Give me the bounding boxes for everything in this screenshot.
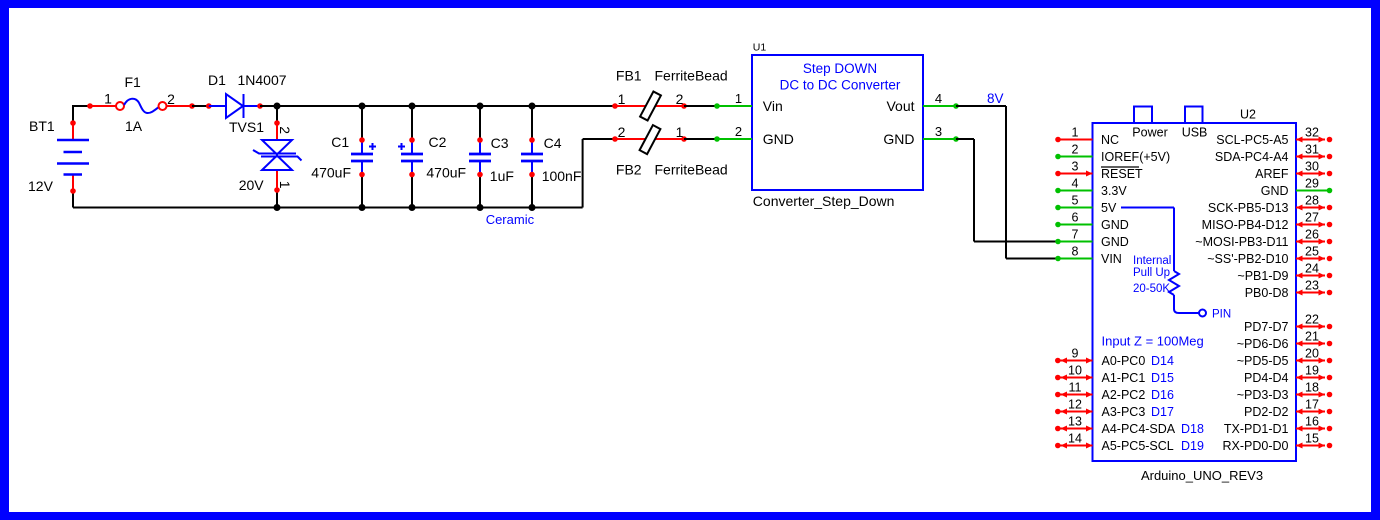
- U2 pin 4 3.3V: [1055, 177, 1127, 199]
- svg-text:D16: D16: [1151, 388, 1174, 402]
- node C2 bottom: [409, 204, 416, 211]
- U2 pin 32 SCL-PC5-A5: [1216, 126, 1332, 148]
- svg-text:8: 8: [1072, 245, 1079, 259]
- U2 pin 12 A3-PC3: [1055, 398, 1174, 420]
- svg-text:VIN: VIN: [1101, 252, 1122, 266]
- node battery top corner: [72, 105, 74, 107]
- svg-text:24: 24: [1305, 262, 1319, 276]
- svg-text:20: 20: [1305, 347, 1319, 361]
- U2 pin 27 MISO-PB4-D12: [1202, 211, 1333, 233]
- svg-text:1: 1: [104, 91, 112, 107]
- svg-text:U1: U1: [753, 42, 767, 54]
- diode D1 1N4007: [206, 72, 287, 118]
- svg-text:IOREF(+5V): IOREF(+5V): [1101, 150, 1170, 164]
- U1 pin 4 Vout: [923, 105, 956, 107]
- svg-text:FB2: FB2: [616, 161, 642, 177]
- svg-text:TX-PD1-D1: TX-PD1-D1: [1224, 422, 1289, 436]
- svg-text:PIN: PIN: [1212, 309, 1231, 321]
- U1 pin 2 GND: [717, 138, 752, 140]
- wire top rail C4 to FB1: [532, 105, 615, 107]
- svg-text:DC to DC Converter: DC to DC Converter: [780, 78, 901, 93]
- node C1 bottom: [359, 204, 366, 211]
- svg-text:1: 1: [277, 181, 293, 189]
- svg-text:16: 16: [1305, 415, 1319, 429]
- U2 pin 18 ~PD3-D3: [1237, 381, 1333, 403]
- capacitor C2 470uF: [398, 106, 423, 208]
- svg-text:BT1: BT1: [29, 118, 55, 134]
- U2 pin 22 PD7-D7: [1244, 313, 1332, 335]
- svg-text:2: 2: [1072, 143, 1079, 157]
- node C3 bottom: [477, 204, 484, 211]
- U2 pin 9 A0-PC0: [1055, 347, 1174, 369]
- wire FB1 to U1 Vin: [684, 105, 717, 107]
- svg-text:15: 15: [1305, 432, 1319, 446]
- svg-text:1uF: 1uF: [490, 168, 514, 184]
- ferrite bead FB2: [612, 124, 727, 177]
- svg-text:1: 1: [618, 91, 626, 107]
- svg-text:D19: D19: [1181, 439, 1204, 453]
- svg-text:470uF: 470uF: [311, 165, 351, 181]
- svg-text:13: 13: [1068, 415, 1082, 429]
- svg-text:~PB1-D9: ~PB1-D9: [1237, 269, 1288, 283]
- U2 pin 5 5V: [1055, 194, 1117, 216]
- svg-text:C3: C3: [491, 135, 509, 151]
- svg-text:7: 7: [1072, 228, 1079, 242]
- svg-text:32: 32: [1305, 126, 1319, 140]
- svg-text:C1: C1: [331, 134, 349, 150]
- wire diode to node A: [260, 105, 277, 107]
- U2 pin 3 RESET: [1055, 160, 1143, 182]
- svg-text:A2-PC2: A2-PC2: [1102, 388, 1146, 402]
- svg-text:C2: C2: [429, 134, 447, 150]
- wire FB2 to U1 GND: [684, 138, 717, 140]
- U2 pin 20 ~PD5-D5: [1237, 347, 1333, 369]
- svg-text:MISO-PB4-D12: MISO-PB4-D12: [1202, 218, 1289, 232]
- resistor internal pull-up 20-50K: [1169, 271, 1179, 295]
- svg-text:12: 12: [1068, 398, 1082, 412]
- svg-text:~PD5-D5: ~PD5-D5: [1237, 354, 1289, 368]
- svg-text:GND: GND: [1101, 218, 1129, 232]
- converter U1: [714, 42, 959, 210]
- U2 pin 14 A5-PC5-SCL: [1055, 432, 1204, 454]
- svg-text:NC: NC: [1101, 133, 1119, 147]
- svg-text:21: 21: [1305, 330, 1319, 344]
- wire 8V net: U1 Vout to U2 VIN: [956, 105, 1006, 107]
- U2 pin 21 ~PD6-D6: [1237, 330, 1333, 352]
- U2 pin 26 ~MOSI-PB3-D11: [1195, 228, 1332, 250]
- svg-text:2: 2: [618, 124, 626, 140]
- svg-text:SCL-PC5-A5: SCL-PC5-A5: [1216, 133, 1288, 147]
- svg-text:RX-PD0-D0: RX-PD0-D0: [1223, 439, 1289, 453]
- svg-text:2: 2: [277, 126, 293, 134]
- svg-text:Input Z = 100Meg: Input Z = 100Meg: [1102, 334, 1204, 349]
- U2 pin 1 NC: [1055, 126, 1119, 148]
- U2 pin 13 A4-PC4-SDA: [1055, 415, 1204, 437]
- wire top rail C2 to C3: [412, 105, 480, 107]
- svg-text:A5-PC5-SCL: A5-PC5-SCL: [1102, 439, 1174, 453]
- svg-text:2: 2: [735, 124, 742, 139]
- wire top rail C3 to C4: [480, 105, 532, 107]
- node C4 top: [529, 103, 536, 110]
- svg-text:2: 2: [167, 91, 175, 107]
- svg-text:A4-PC4-SDA: A4-PC4-SDA: [1102, 422, 1176, 436]
- svg-text:SCK-PB5-D13: SCK-PB5-D13: [1208, 201, 1289, 215]
- svg-text:3: 3: [935, 124, 942, 139]
- svg-text:27: 27: [1305, 211, 1319, 225]
- wire battery top to fuse: [73, 105, 90, 107]
- wire top rail C1 to C2: [362, 105, 412, 107]
- svg-text:D18: D18: [1181, 422, 1204, 436]
- svg-text:20V: 20V: [239, 177, 265, 193]
- ferrite bead FB1: [612, 67, 727, 120]
- svg-text:31: 31: [1305, 143, 1319, 157]
- svg-text:1: 1: [735, 91, 742, 106]
- svg-text:8V: 8V: [987, 91, 1004, 106]
- svg-text:PB0-D8: PB0-D8: [1245, 286, 1289, 300]
- svg-text:Arduino_UNO_REV3: Arduino_UNO_REV3: [1141, 468, 1263, 483]
- svg-text:6: 6: [1072, 211, 1079, 225]
- svg-text:5V: 5V: [1101, 201, 1117, 215]
- wire bottom rail: [73, 207, 583, 209]
- wire top rail node A to C1: [277, 105, 362, 107]
- svg-text:RESET: RESET: [1101, 167, 1143, 181]
- U1 pin 3 GND: [923, 138, 956, 140]
- svg-text:9: 9: [1072, 347, 1079, 361]
- node C3 top: [477, 103, 484, 110]
- U2 pin 10 A1-PC1: [1055, 364, 1174, 386]
- svg-text:Converter_Step_Down: Converter_Step_Down: [753, 193, 895, 209]
- svg-text:FerriteBead: FerriteBead: [655, 161, 728, 177]
- svg-text:3.3V: 3.3V: [1101, 184, 1127, 198]
- svg-text:28: 28: [1305, 194, 1319, 208]
- node C1 top: [359, 103, 366, 110]
- U2 pin 16 TX-PD1-D1: [1224, 415, 1332, 437]
- svg-text:23: 23: [1305, 279, 1319, 293]
- capacitor C4 100nF: [521, 106, 543, 208]
- svg-text:PD4-D4: PD4-D4: [1244, 371, 1289, 385]
- svg-text:AREF: AREF: [1255, 167, 1289, 181]
- svg-text:20-50K: 20-50K: [1133, 283, 1170, 295]
- U2 pin 6 GND: [1055, 211, 1129, 233]
- svg-text:D15: D15: [1151, 371, 1174, 385]
- svg-text:D14: D14: [1151, 354, 1174, 368]
- wire GND net: U1 GND to U2 GND: [956, 138, 974, 140]
- svg-text:U2: U2: [1240, 108, 1256, 122]
- svg-text:GND: GND: [883, 131, 914, 147]
- svg-text:19: 19: [1305, 364, 1319, 378]
- node TVS bottom junction: [274, 204, 281, 211]
- U2 pin 29 GND: [1261, 177, 1333, 199]
- U2 pin 17 PD2-D2: [1244, 398, 1332, 420]
- node A (D1/TVS junction): [274, 103, 281, 110]
- U1 pin 1 Vin: [717, 105, 752, 107]
- U2 USB connector tab: [1185, 107, 1203, 124]
- svg-text:1N4007: 1N4007: [238, 72, 287, 88]
- svg-text:USB: USB: [1182, 126, 1208, 140]
- svg-text:1: 1: [1072, 126, 1079, 140]
- svg-text:17: 17: [1305, 398, 1319, 412]
- svg-text:11: 11: [1069, 381, 1082, 395]
- U2 pin 28 SCK-PB5-D13: [1208, 194, 1332, 216]
- U2 pin 24 ~PB1-D9: [1237, 262, 1332, 284]
- svg-text:1: 1: [676, 124, 684, 140]
- capacitor C3 1uF: [469, 106, 491, 208]
- svg-text:A0-PC0: A0-PC0: [1102, 354, 1146, 368]
- Arduino U2 box: [1093, 123, 1297, 461]
- U2 pin 2 IOREF(+5V): [1055, 143, 1170, 165]
- wire resistor to PIN terminal: [1174, 295, 1199, 313]
- svg-text:A3-PC3: A3-PC3: [1102, 405, 1146, 419]
- svg-text:PD7-D7: PD7-D7: [1244, 320, 1289, 334]
- U2 pin 31 SDA-PC4-A4: [1215, 143, 1332, 165]
- svg-text:Ceramic: Ceramic: [486, 212, 535, 227]
- svg-text:25: 25: [1305, 245, 1319, 259]
- U2 pin 8 VIN: [1055, 245, 1122, 267]
- U2 pin 19 PD4-D4: [1244, 364, 1332, 386]
- U2 pin 23 PB0-D8: [1245, 279, 1333, 301]
- U2 pin 30 AREF: [1255, 160, 1332, 182]
- svg-text:F1: F1: [125, 74, 142, 90]
- svg-text:PD2-D2: PD2-D2: [1244, 405, 1289, 419]
- svg-text:18: 18: [1305, 381, 1319, 395]
- svg-text:TVS1: TVS1: [229, 119, 264, 135]
- svg-text:5: 5: [1072, 194, 1079, 208]
- svg-text:GND: GND: [1101, 235, 1129, 249]
- svg-text:SDA-PC4-A4: SDA-PC4-A4: [1215, 150, 1289, 164]
- svg-text:22: 22: [1305, 313, 1319, 327]
- svg-text:~PD6-D6: ~PD6-D6: [1237, 337, 1289, 351]
- svg-text:10: 10: [1068, 364, 1082, 378]
- svg-text:Internal: Internal: [1133, 255, 1171, 267]
- svg-text:~PD3-D3: ~PD3-D3: [1237, 388, 1289, 402]
- wire bottom rail riser to FB2: [582, 139, 584, 208]
- svg-text:12V: 12V: [28, 178, 54, 194]
- fuse F1: [87, 74, 195, 134]
- svg-text:29: 29: [1305, 177, 1319, 191]
- U2 pin 15 RX-PD0-D0: [1223, 432, 1333, 454]
- svg-text:A1-PC1: A1-PC1: [1102, 371, 1146, 385]
- svg-text:3: 3: [1072, 160, 1079, 174]
- U2 Power connector tab: [1134, 107, 1152, 124]
- node C4 bottom: [529, 204, 536, 211]
- svg-text:2: 2: [676, 91, 684, 107]
- svg-text:C4: C4: [544, 135, 562, 151]
- TVS diode TVS1: [229, 106, 302, 208]
- capacitor C1 470uF: [351, 106, 376, 208]
- svg-text:FB1: FB1: [616, 67, 642, 83]
- U2 pin 7 GND: [1055, 228, 1129, 250]
- svg-text:D17: D17: [1151, 405, 1174, 419]
- svg-text:Pull Up: Pull Up: [1133, 267, 1170, 279]
- svg-text:~SS'-PB2-D10: ~SS'-PB2-D10: [1207, 252, 1288, 266]
- svg-text:Power: Power: [1132, 126, 1167, 140]
- svg-text:FerriteBead: FerriteBead: [655, 67, 728, 83]
- svg-text:14: 14: [1068, 432, 1082, 446]
- U2 pin 25 ~SS'-PB2-D10: [1207, 245, 1332, 267]
- svg-text:100nF: 100nF: [542, 168, 582, 184]
- svg-text:4: 4: [1072, 177, 1079, 191]
- svg-text:~MOSI-PB3-D11: ~MOSI-PB3-D11: [1195, 235, 1288, 249]
- svg-text:470uF: 470uF: [426, 165, 466, 181]
- battery BT1: [28, 106, 89, 208]
- svg-text:D1: D1: [208, 72, 226, 88]
- svg-text:4: 4: [935, 91, 942, 106]
- svg-text:Vout: Vout: [886, 98, 914, 114]
- svg-text:30: 30: [1305, 160, 1319, 174]
- svg-text:GND: GND: [1261, 184, 1289, 198]
- svg-text:1A: 1A: [125, 118, 143, 134]
- U2 pin 11 A2-PC2: [1055, 381, 1174, 403]
- svg-text:Vin: Vin: [763, 98, 783, 114]
- wire fuse to diode: [192, 105, 209, 107]
- node C2 top: [409, 103, 416, 110]
- internal pull-up wire from 5V: [1121, 207, 1174, 209]
- svg-text:GND: GND: [763, 131, 794, 147]
- svg-text:Step DOWN: Step DOWN: [803, 61, 877, 76]
- svg-text:26: 26: [1305, 228, 1319, 242]
- PIN terminal circle: [1199, 310, 1206, 317]
